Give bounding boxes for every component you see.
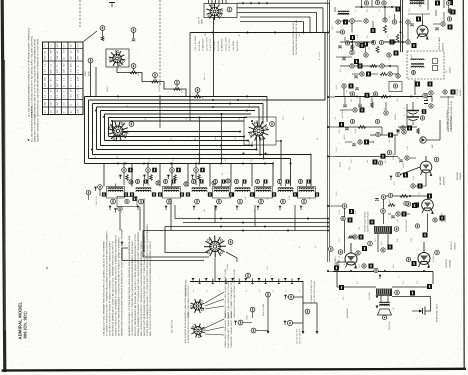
svg-text:1620KC 2 ADJUST ANT TRIMMER AT: 1620KC 2 ADJUST ANT TRIMMER AT 1400KC FO… [115, 235, 118, 336]
svg-text:1400KC: 1400KC [158, 84, 161, 92]
svg-text:7145: 7145 [246, 315, 249, 320]
svg-text:UNTIL NO FURTHER IMPROVEMENT I: UNTIL NO FURTHER IMPROVEMENT IS NOTED 4 … [118, 236, 121, 336]
b minus feed [327, 32, 337, 273]
filter cap cluster extras [397, 91, 434, 134]
svg-text:TO B MINUS CHASSIS GND WITH NO: TO B MINUS CHASSIS GND WITH NO SIGNAL IN… [31, 35, 34, 117]
output frame [334, 262, 433, 287]
chassis code text [171, 320, 174, 333]
driver collector [375, 195, 386, 224]
ADMIRAL MODEL 909 title [18, 301, 28, 339]
svg-text:ANTENNA IN SERIES WITH LOOP 1: ANTENNA IN SERIES WITH LOOP 1 BC ADJUST … [112, 240, 115, 336]
svg-text:.05: .05 [345, 90, 348, 93]
2nd IF grid cluster [345, 34, 417, 53]
svg-text:C5: C5 [116, 156, 119, 159]
svg-text:1.4V GRID: 1.4V GRID [232, 40, 235, 51]
svg-text:OSC COIL: OSC COIL [95, 196, 98, 205]
svg-text:12B: 12B [76, 49, 79, 54]
det load parts [396, 126, 419, 135]
svg-text:OSC: OSC [204, 31, 207, 36]
label output 1 [334, 258, 340, 268]
oscillator coil L2 cluster [86, 185, 140, 231]
svg-text:8.2: 8.2 [343, 262, 346, 265]
avc filter parts [345, 140, 374, 147]
svg-text:SPEAKER: SPEAKER [346, 308, 349, 318]
svg-text:STATE MODEL NUMBERS ADJACENT T: STATE MODEL NUMBERS ADJACENT TO COILS SW… [146, 224, 149, 336]
volume label right [447, 95, 453, 132]
svg-text:MOD: MOD [88, 71, 91, 76]
interstage top [0, 0, 1, 1]
avc row [337, 119, 382, 130]
svg-text:VOLUME CONTROL: VOLUME CONTROL [446, 109, 449, 130]
svg-text:SERVICING ALL VOLTAGE MEASUREM: SERVICING ALL VOLTAGE MEASUREMENTS MADE … [37, 39, 40, 117]
svg-text:-1.1V: -1.1V [335, 147, 338, 152]
svg-text:B- -10.5V: B- -10.5V [318, 51, 321, 60]
svg-text:R6: R6 [194, 138, 197, 141]
capacitor C3 [131, 28, 136, 42]
tube chart footnote text [28, 27, 40, 142]
svg-text:.05: .05 [402, 35, 405, 38]
svg-text:50MFD: 50MFD [394, 113, 397, 120]
misc top right parts [371, 14, 422, 33]
wire central bus nest [85, 33, 326, 187]
tube socket V1 converter top [106, 49, 129, 67]
svg-text:-10V: -10V [416, 95, 419, 100]
svg-text:2.2K: 2.2K [406, 145, 409, 150]
tube socket V2 1st IF [204, 3, 237, 20]
svg-text:100: 100 [396, 219, 399, 222]
svg-text:R1: R1 [94, 156, 97, 159]
svg-text:PLATE 85V: PLATE 85V [236, 40, 239, 51]
svg-text:AVC BUS: AVC BUS [341, 109, 344, 118]
svg-text:B-: B- [238, 34, 241, 36]
svg-text:220: 220 [118, 175, 121, 178]
svg-text:VOLUME CONTROL ON: VOLUME CONTROL ON [310, 280, 313, 303]
svg-text:TRANS: TRANS [453, 242, 456, 250]
transistor Q5 output [418, 242, 439, 268]
screen cluster [336, 50, 399, 72]
svg-text:IS NOTED 4 ALIGN IF TRANS AT 4: IS NOTED 4 ALIGN IF TRANS AT 455KC 5 CON… [109, 241, 112, 336]
svg-text:2ND: 2ND [248, 140, 251, 145]
svg-text:(2N408): (2N408) [448, 260, 451, 268]
resistor R4 [174, 80, 184, 93]
svg-text:86V: 86V [50, 49, 53, 54]
svg-text:ALL VOLTAGE MEASUREMENTS: ALL VOLTAGE MEASUREMENTS [31, 106, 34, 142]
pilot light branch [262, 292, 270, 334]
socket diagram labels A [184, 269, 236, 318]
wire nest from V2 to AVC bus [237, 2, 330, 32]
sq29 cluster [364, 211, 375, 232]
IF transformer L6 [229, 179, 255, 210]
svg-text:456KC: 456KC [448, 66, 451, 73]
output bias parts [344, 235, 364, 240]
svg-text:2N406A: 2N406A [442, 176, 445, 185]
svg-text:1.4V GRID: 1.4V GRID [213, 40, 216, 51]
output top rail [333, 251, 433, 279]
dashed trimmer line B [159, 0, 161, 86]
svg-text:DRIVE CORD CHASSIS BOTTOM VIEW: DRIVE CORD CHASSIS BOTTOM VIEW [227, 280, 230, 318]
svg-text:R28: R28 [392, 264, 395, 268]
top right risers [420, 0, 452, 16]
resistor R21 [305, 309, 310, 314]
svg-text:.1: .1 [398, 276, 401, 278]
svg-text:470K: 470K [288, 195, 291, 200]
capacitor C14 pair [191, 163, 205, 186]
svg-text:DRIVER: DRIVER [456, 171, 459, 180]
svg-text:L1: L1 [354, 10, 357, 12]
svg-text:.05: .05 [363, 142, 366, 145]
wires to V4 socket [121, 227, 238, 282]
svg-text:C10: C10 [282, 116, 285, 120]
svg-text:C9: C9 [366, 36, 369, 39]
svg-text:47: 47 [358, 103, 361, 105]
top right connect wires [340, 6, 456, 52]
svg-text:DET: DET [251, 140, 254, 145]
resistor R30 [246, 307, 255, 320]
electrolytic C30 [403, 102, 419, 125]
svg-text:47: 47 [298, 246, 301, 248]
page mark dot [46, 267, 47, 268]
af amp base parts [390, 167, 421, 180]
IF transformer L1 [102, 184, 128, 211]
ref circle 11 [350, 19, 355, 33]
selenium label [292, 19, 298, 55]
svg-text:-10.5V: -10.5V [339, 161, 342, 168]
svg-text:12B: 12B [44, 82, 47, 87]
svg-text:6.3V: 6.3V [266, 265, 269, 270]
pilot lamp string [190, 278, 303, 292]
capacitor C11 pair [119, 163, 133, 186]
transistor Q3 AF amp [420, 156, 439, 176]
svg-text:L5: L5 [271, 290, 274, 292]
svg-text:220: 220 [342, 297, 345, 300]
svg-text:1ST AF: 1ST AF [456, 88, 459, 96]
svg-text:.02: .02 [308, 197, 311, 200]
svg-text:3.2 OHM: 3.2 OHM [368, 292, 371, 300]
svg-text:MADE WITH VTVM FROM: MADE WITH VTVM FROM [34, 114, 37, 142]
svg-text:C31: C31 [416, 280, 419, 284]
IF transformer L4 [186, 179, 212, 210]
svg-text:86V: 86V [44, 55, 47, 60]
tube socket V1 converter [108, 121, 134, 142]
svg-text:SCREEN 84V: SCREEN 84V [221, 38, 224, 51]
svg-text:1ST IF: 1ST IF [198, 16, 201, 24]
svg-text:AVC: AVC [298, 32, 301, 36]
IF transformer L9 [293, 179, 319, 210]
svg-text:INTERSTAGE TRANS: INTERSTAGE TRANS [366, 211, 369, 232]
T2 bottom parts [389, 74, 433, 95]
svg-text:ON CHASSIS SELENIUM RECTIFIER: ON CHASSIS SELENIUM RECTIFIER [295, 19, 298, 55]
svg-text:8.2K: 8.2K [166, 173, 169, 178]
svg-text:R15: R15 [396, 98, 399, 102]
svg-text:C7: C7 [170, 138, 173, 141]
IF transformer T2 [407, 51, 444, 79]
svg-text:C27: C27 [338, 238, 341, 242]
transistor Q2 2nd IF [417, 20, 429, 40]
IF transformer L7 [250, 179, 276, 210]
svg-text:.05: .05 [368, 47, 371, 50]
right labels extra [335, 53, 462, 330]
B minus rail double line [328, 0, 330, 262]
svg-text:C25: C25 [418, 192, 421, 196]
bottom border line [2, 369, 467, 371]
svg-text:L5: L5 [219, 290, 222, 292]
left of T3 [335, 204, 354, 253]
svg-text:.02: .02 [370, 99, 373, 102]
wire lower staircase [143, 199, 328, 253]
svg-text:AND MAY NOT NECESSARILY BE FOU: AND MAY NOT NECESSARILY BE FOUND ON THE … [143, 236, 146, 336]
svg-text:4.7K: 4.7K [353, 45, 356, 50]
resistor R31 [234, 320, 252, 325]
capacitor C13 pair [167, 163, 181, 186]
svg-text:AMP: AMP [201, 19, 204, 24]
svg-text:AVC: AVC [348, 90, 351, 94]
svg-text:L5: L5 [192, 290, 195, 292]
svg-text:MODEL NUMBERS ADJACENT TO COIL: MODEL NUMBERS ADJACENT TO COILS SWITCHES… [137, 232, 140, 336]
potentiometer R20 [284, 294, 294, 299]
svg-text:220K: 220K [354, 128, 357, 133]
right border line [462, 0, 465, 369]
mixer bias parts [336, 30, 365, 50]
svg-text:909 (Ch. 9D1): 909 (Ch. 9D1) [22, 311, 27, 339]
svg-text:CHASSIS BOTTOM VIEW SOCKET CON: CHASSIS BOTTOM VIEW SOCKET CONNECTIONS [233, 269, 236, 318]
if bypass parts [342, 84, 359, 98]
svg-text:1 BC ADJUST OSC TRIMMER FOR MA: 1 BC ADJUST OSC TRIMMER FOR MAX OUTPUT A… [103, 241, 106, 336]
label volume control [296, 280, 316, 344]
y205 parts [381, 201, 417, 213]
svg-text:12B: 12B [56, 55, 59, 60]
svg-text:456KC: 456KC [410, 53, 413, 60]
af coupling parts [398, 156, 416, 162]
svg-text:.02: .02 [194, 175, 197, 178]
svg-text:12B: 12B [63, 68, 66, 73]
svg-text:ALL VOLTAGE MEASUREMENTS MADE: ALL VOLTAGE MEASUREMENTS MADE WITH VTVM … [28, 27, 31, 117]
numbered notes list [103, 228, 124, 336]
svg-text:100: 100 [170, 172, 173, 175]
wire feed drop x281 [276, 141, 281, 186]
svg-text:CATH 2.1 HTR: CATH 2.1 HTR [205, 37, 208, 51]
svg-text:PLATE 85V: PLATE 85V [198, 40, 201, 51]
svg-text:.005: .005 [388, 139, 391, 143]
svg-text:2ND: 2ND [248, 104, 251, 108]
svg-text:AF AMP: AF AMP [439, 176, 442, 185]
ref circle 40 lamp [246, 273, 251, 278]
label 1ST IF near V2 [198, 16, 204, 24]
svg-text:T5: T5 [135, 196, 138, 198]
svg-text:4.7K: 4.7K [338, 209, 341, 214]
svg-text:R23: R23 [354, 210, 357, 214]
svg-text:.01: .01 [197, 172, 200, 175]
svg-text:AT MINIMUM LINE AT 117V AC USE: AT MINIMUM LINE AT 117V AC USE ISOLATION… [34, 38, 37, 117]
tube socket V3 IF [244, 117, 276, 145]
svg-text:3.3K: 3.3K [181, 88, 184, 93]
svg-text:INTERSTAGE: INTERSTAGE [405, 219, 408, 232]
socket diagram labels B [184, 311, 233, 348]
svg-text:NUMBERS ADJACENT TO COILS SWIT: NUMBERS ADJACENT TO COILS SWITCHES JACKS… [128, 235, 131, 336]
voltage chart text block [194, 35, 239, 51]
svg-text:12.6 AC OSC: 12.6 AC OSC [228, 38, 231, 51]
transistor Q3b [406, 196, 434, 214]
label earphone jack [436, 303, 439, 322]
label output 2 [445, 258, 451, 268]
label dial lamp [185, 279, 188, 296]
y247 row [362, 241, 393, 252]
svg-text:PLATE 85V: PLATE 85V [217, 40, 220, 51]
bus junction dots [91, 96, 292, 165]
socket base diagram B [191, 319, 224, 338]
svg-text:455: 455 [203, 209, 206, 212]
switch S1 [284, 320, 293, 325]
svg-text:-1.1V: -1.1V [410, 237, 413, 243]
ref circle 1 [88, 58, 93, 63]
svg-text:L5: L5 [258, 290, 261, 292]
svg-text:TO FACILITATE CIRCUIT TRACING: TO FACILITATE CIRCUIT TRACING ON CHASSIS… [131, 241, 134, 336]
q3b emitter [410, 214, 445, 244]
svg-text:TUBES 12BE6 12BA6 12AV6 50C5: TUBES 12BE6 12BA6 12AV6 50C5 [184, 285, 187, 318]
IF transformer L5 [208, 179, 234, 210]
row y95 wire [335, 92, 432, 102]
svg-text:ARE TO FACILITATE CIRCUIT TRAC: ARE TO FACILITATE CIRCUIT TRACING ON CHA… [149, 241, 152, 336]
svg-text:POINTER DRIVE DIAL POINTER: POINTER DRIVE DIAL POINTER [187, 312, 190, 343]
det diode CR1 [420, 120, 440, 143]
svg-text:OUTPUT: OUTPUT [445, 258, 448, 268]
svg-text:MAY NOT NECESSARILY BE FOUND O: MAY NOT NECESSARILY BE FOUND ON THE UNIT… [134, 234, 137, 336]
output transformer T4 [376, 289, 415, 297]
svg-text:4.7K: 4.7K [412, 175, 415, 180]
svg-text:68: 68 [221, 173, 224, 175]
svg-text:3.3K: 3.3K [159, 81, 162, 86]
IF transformer L3 [158, 179, 184, 210]
label T2 456KC [445, 66, 451, 73]
resistor R2 [130, 64, 140, 77]
svg-text:PILOT LIGHT: PILOT LIGHT [262, 303, 265, 316]
capacitor C12 pair [143, 163, 157, 186]
svg-text:EARPHONE JACK: EARPHONE JACK [436, 303, 439, 322]
svg-text:L2: L2 [161, 196, 164, 198]
speaker SP1 [376, 296, 392, 320]
af input row [335, 150, 398, 168]
svg-text:SCREEN 84V: SCREEN 84V [202, 38, 205, 51]
svg-text:86V: 86V [50, 101, 53, 106]
callout line from table [84, 31, 98, 42]
svg-text:Ch. 9D1-1A: Ch. 9D1-1A [171, 320, 174, 333]
svg-text:270: 270 [339, 69, 342, 72]
component value labels [94, 9, 421, 300]
dashed trimmer line A [79, 0, 81, 27]
avc value labels [185, 51, 321, 122]
svg-text:600KC: 600KC [106, 85, 109, 92]
svg-text:L5: L5 [205, 290, 208, 292]
q3 emitter parts [411, 173, 426, 189]
svg-text:CLASS B: CLASS B [432, 253, 435, 262]
svg-text:.02: .02 [224, 159, 227, 162]
svg-text:SOCKET TERMINALS: SOCKET TERMINALS [37, 118, 40, 142]
speaker fuse sq [339, 284, 432, 290]
tube voltage chart table [43, 42, 84, 115]
earphone jack J1 [392, 297, 431, 316]
svg-text:ARE TO FACILITATE CIRCUIT TRAC: ARE TO FACILITATE CIRCUIT TRACING ON CHA… [140, 241, 143, 336]
svg-text:OFF SWITCH VOLUME: OFF SWITCH VOLUME [313, 280, 316, 303]
wire AVC line y33 [190, 32, 328, 97]
wire IF feed drops [160, 97, 223, 164]
svg-text:GENERATOR THROUGH DUMMY ANTENN: GENERATOR THROUGH DUMMY ANTENNA IN SERIE… [121, 228, 124, 336]
wire oscillator staircase [117, 58, 186, 97]
label driver [441, 213, 447, 222]
svg-text:150MA: 150MA [226, 263, 229, 270]
svg-text:270: 270 [388, 57, 391, 60]
resistor R8 [383, 18, 387, 33]
svg-text:L5: L5 [285, 290, 288, 292]
wire risers above V2 [209, 0, 227, 4]
svg-text:-0.2V: -0.2V [335, 85, 338, 90]
svg-text:.05: .05 [172, 159, 175, 162]
capacitor C2 [100, 26, 105, 41]
capacitor C40 [251, 328, 268, 333]
svg-text:1MEG: 1MEG [402, 162, 405, 168]
svg-text:12B: 12B [76, 93, 79, 98]
svg-text:.01: .01 [378, 9, 381, 12]
svg-text:.01: .01 [260, 117, 263, 120]
svg-text:C20: C20 [338, 129, 341, 133]
if decoupling parts [352, 72, 398, 79]
svg-text:86V: 86V [76, 55, 79, 60]
svg-text:ON OFF ON OFF: ON OFF ON OFF [298, 328, 301, 344]
svg-text:86V: 86V [50, 68, 53, 73]
svg-text:T6: T6 [253, 210, 256, 212]
svg-text:OUTPUT: OUTPUT [450, 241, 453, 250]
svg-text:47: 47 [383, 64, 386, 66]
antenna coil T1 cluster [355, 0, 453, 12]
svg-text:1MEG: 1MEG [343, 134, 346, 140]
driver transformer T3 [374, 226, 399, 252]
wire V2 plate drop [213, 17, 215, 97]
svg-text:456KC: 456KC [228, 183, 231, 190]
svg-text:INTERSTAGE TRANS: INTERSTAGE TRANS [364, 211, 367, 232]
svg-text:OSC: OSC [84, 71, 87, 76]
svg-text:R17: R17 [372, 139, 375, 143]
svg-text:-1.5V: -1.5V [185, 117, 188, 122]
tube socket V4 output [204, 236, 233, 258]
svg-text:AND SWITCH: AND SWITCH [449, 116, 452, 130]
svg-text:12.6 AC OSC: 12.6 AC OSC [209, 38, 212, 51]
svg-text:470: 470 [393, 182, 396, 185]
svg-text:AT 1400KC FOR MAX OUTPUT 3 REP: AT 1400KC FOR MAX OUTPUT 3 REPEAT ADJUST… [106, 231, 109, 336]
svg-text:R12: R12 [360, 62, 363, 66]
svg-text:R26: R26 [396, 238, 399, 242]
ref circle 7 near V2 [227, 7, 232, 12]
svg-text:86V: 86V [70, 62, 73, 67]
svg-text:TUNING SHAFT TURNS LEFT TUNING: TUNING SHAFT TURNS LEFT TUNING [224, 311, 227, 348]
transistor Q4 output [338, 243, 357, 269]
svg-text:-2.1V: -2.1V [335, 191, 338, 196]
svg-text:120: 120 [386, 35, 389, 38]
svg-text:.05: .05 [143, 175, 146, 178]
svg-text:220: 220 [408, 9, 411, 12]
avc row2 [370, 127, 398, 155]
svg-text:2N410: 2N410 [441, 42, 444, 50]
svg-text:470: 470 [144, 117, 147, 120]
component row extra [129, 179, 230, 186]
wire IF row drops [104, 164, 252, 187]
trimmer cap C1A [109, 3, 115, 8]
svg-text:SELENIUM RECTIFIER MOUNTED: SELENIUM RECTIFIER MOUNTED [292, 22, 295, 55]
svg-text:CATH 2.1 HTR: CATH 2.1 HTR [224, 37, 227, 51]
resistor R3 [152, 73, 162, 86]
general notes paragraph [128, 224, 152, 336]
svg-text:2ND AF: 2ND AF [392, 152, 395, 160]
svg-text:DIAL POINTER DRIVE DIAL: DIAL POINTER DRIVE DIAL [184, 317, 187, 343]
svg-text:PM SPKR: PM SPKR [388, 321, 391, 330]
svg-text:39: 39 [338, 256, 341, 258]
